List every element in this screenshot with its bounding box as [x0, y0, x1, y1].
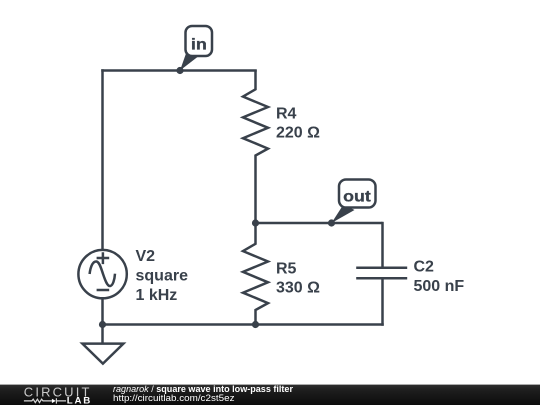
wire left rail (V2 top lead) [101, 69, 104, 249]
svg-text:out: out [343, 188, 371, 205]
svg-text:square: square [136, 267, 189, 284]
node dot in [176, 67, 183, 74]
svg-text:220 Ω: 220 Ω [276, 125, 320, 142]
flag in [180, 26, 212, 71]
logo diode [52, 399, 56, 403]
svg-text:LAB: LAB [67, 396, 92, 405]
wire V2 bottom lead to ground [101, 299, 104, 343]
capacitor C2 [356, 268, 407, 278]
node junction R5-bottom [252, 321, 259, 328]
wire top rail (in net) [101, 69, 257, 72]
wire bottom rail (ground net) [101, 323, 384, 326]
svg-text:500 nF: 500 nF [414, 278, 465, 295]
wire capacitor bottom lead [381, 280, 384, 326]
svg-text:R4: R4 [276, 105, 297, 122]
svg-text:330 Ω: 330 Ω [276, 280, 320, 297]
svg-text:V2: V2 [136, 248, 156, 265]
svg-text:1 kHz: 1 kHz [136, 287, 178, 304]
flag out [332, 180, 376, 224]
wire out rail (out net) [254, 222, 382, 225]
logo resistor squiggle [24, 399, 52, 402]
svg-text:C2: C2 [414, 259, 435, 276]
wire capacitor top lead [381, 222, 384, 267]
resistor R5 [243, 222, 268, 326]
ground [82, 344, 123, 364]
svg-text:http://circuitlab.com/c2st5ez: http://circuitlab.com/c2st5ez [113, 393, 235, 403]
node dot out [328, 219, 335, 226]
svg-text:R5: R5 [276, 260, 297, 277]
node junction source-bottom [99, 321, 106, 328]
voltage source V2 [78, 250, 126, 298]
node junction R4-R5 [252, 219, 259, 226]
resistor R4 [243, 70, 268, 223]
svg-text:in: in [191, 36, 207, 53]
